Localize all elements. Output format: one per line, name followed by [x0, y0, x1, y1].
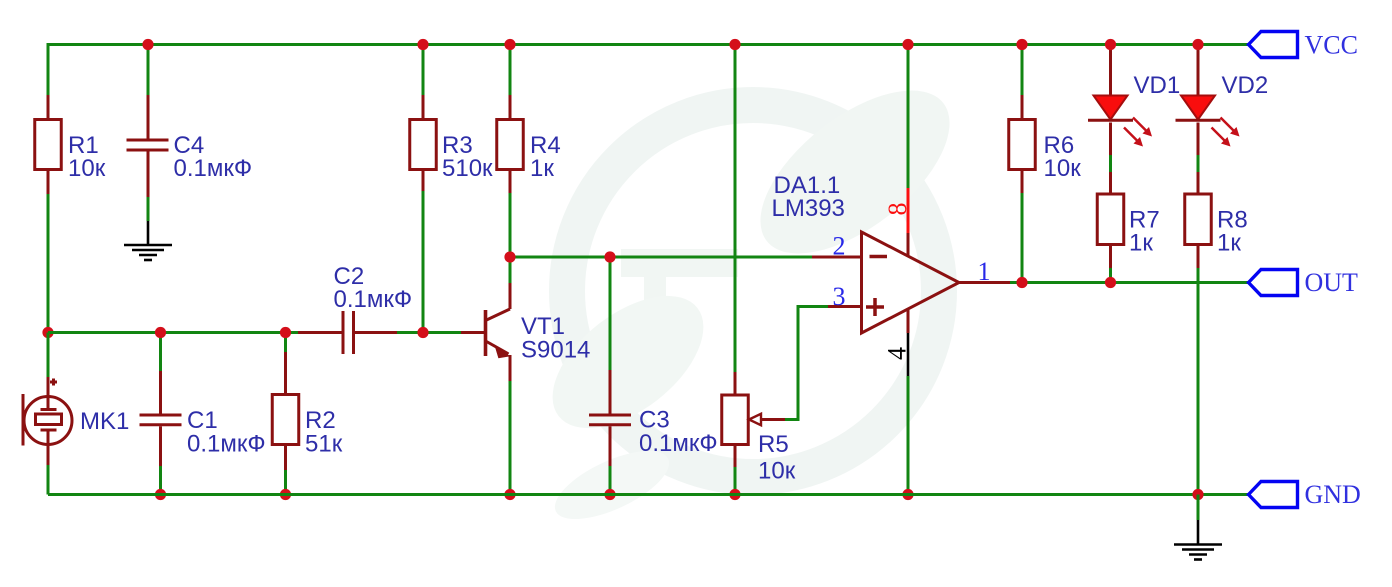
wire left vertical VCC to mid node [47, 43, 50, 95]
wire op-amp inverting input (pin 2) [510, 256, 812, 259]
svg-text:8: 8 [883, 203, 912, 216]
resistor R1 [35, 95, 106, 194]
wire wiper to op-amp pin 3 [785, 307, 828, 420]
svg-text:VCC: VCC [1305, 31, 1358, 60]
wire to ground symbol [1197, 495, 1200, 521]
wire C4 to ground [147, 197, 150, 221]
ground symbol (C4) [124, 221, 172, 260]
pin 3 lead [828, 305, 860, 308]
pin 2 lead [812, 256, 860, 259]
port GND [1249, 480, 1361, 509]
svg-text:0.1мкФ: 0.1мкФ [639, 430, 718, 457]
LED VD2 [1176, 45, 1269, 156]
resistor R4 [497, 45, 561, 284]
wire VD2 to R8 [1197, 155, 1200, 172]
op-amp DA1.1 [772, 172, 960, 333]
node C3 top [604, 251, 615, 262]
microphone MK1 [23, 333, 129, 495]
node pin4 bottom [902, 489, 913, 500]
resistor R8 [1185, 172, 1248, 268]
resistor R3 [410, 45, 493, 333]
svg-text:3: 3 [833, 282, 846, 311]
node R4 top [504, 39, 515, 50]
wire GND bottom rail [48, 493, 1249, 496]
svg-text:VD1: VD1 [1134, 72, 1181, 99]
svg-text:10к: 10к [68, 155, 106, 182]
node R3 bottom / base node [417, 327, 428, 338]
resistor R2 [272, 333, 342, 495]
svg-text:1: 1 [978, 257, 991, 286]
port VCC [1249, 31, 1358, 60]
node R2 top [280, 327, 291, 338]
wire VD1 to R7 [1109, 155, 1112, 172]
node VD1 top [1105, 39, 1116, 50]
capacitor C2 [298, 263, 412, 354]
capacitor C3 [589, 257, 718, 495]
op-amp power pin 8 [883, 45, 912, 257]
port OUT [1249, 268, 1359, 297]
svg-text:VD2: VD2 [1222, 72, 1269, 99]
svg-text:10к: 10к [758, 458, 796, 485]
resistor R7 [1097, 172, 1159, 283]
svg-text:2: 2 [833, 232, 846, 261]
svg-text:1к: 1к [1217, 230, 1241, 257]
svg-text:1к: 1к [1129, 230, 1153, 257]
node C1 top [155, 327, 166, 338]
watermark logo [529, 60, 977, 533]
svg-text:S9014: S9014 [521, 337, 590, 364]
capacitor C1 [140, 333, 266, 495]
node VD2 top [1192, 39, 1203, 50]
node R3 top [417, 39, 428, 50]
svg-text:GND: GND [1305, 480, 1361, 509]
node R2 bottom [280, 489, 291, 500]
wire VCC top rail [48, 43, 1249, 46]
node C4 top [142, 39, 153, 50]
node mid rail junction at R1/MK1 [42, 327, 53, 338]
svg-text:MK1: MK1 [80, 408, 129, 435]
svg-text:4: 4 [882, 347, 911, 360]
wire R1 bottom to mid node [47, 194, 50, 333]
wire OUT rail [1022, 281, 1249, 284]
node pin8 top [902, 39, 913, 50]
wire R8 down to GND rail [1197, 268, 1200, 495]
ground symbol (GND) [1174, 520, 1222, 560]
node R6 top [1016, 39, 1027, 50]
node GND junction [1192, 489, 1203, 500]
node collector / pin2 wire [504, 251, 515, 262]
op-amp ground pin 4 [882, 309, 911, 495]
svg-text:0.1мкФ: 0.1мкФ [334, 286, 413, 313]
svg-text:510к: 510к [442, 155, 493, 182]
node R6 bottom / OUT junction [1016, 277, 1027, 288]
node R4 bottom rail [504, 489, 515, 500]
node R5 bottom [729, 489, 740, 500]
svg-text:10к: 10к [1044, 155, 1082, 182]
svg-text:1к: 1к [530, 155, 554, 182]
svg-text:LM393: LM393 [772, 195, 845, 222]
potentiometer R5 [722, 45, 796, 495]
node C3 bottom [604, 489, 615, 500]
wire mid rail [48, 331, 342, 334]
node R7 bottom / OUT junction [1105, 277, 1116, 288]
svg-text:0.1мкФ: 0.1мкФ [174, 155, 253, 182]
svg-text:51к: 51к [305, 431, 343, 458]
svg-text:0.1мкФ: 0.1мкФ [187, 431, 266, 458]
LED VD1 [1088, 45, 1180, 156]
svg-text:OUT: OUT [1305, 268, 1359, 297]
resistor R6 [1009, 45, 1081, 283]
svg-text:R5: R5 [758, 431, 789, 458]
node R5 top [729, 39, 740, 50]
node C1 bottom [155, 489, 166, 500]
op-amp output pin 1 [959, 257, 1023, 286]
capacitor C4 [127, 45, 253, 198]
wire mid rail right of C2 [355, 331, 462, 334]
transistor VT1 [461, 283, 590, 495]
